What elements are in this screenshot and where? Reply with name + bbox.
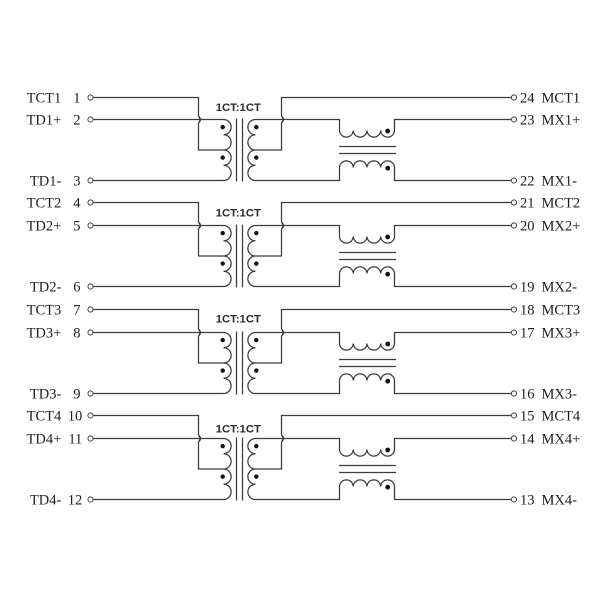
transformer T2 secondary polarity dot (bottom half) — [254, 261, 258, 265]
wire T4 secondary center tap to MCT4 pin 15 — [256, 416, 512, 470]
wire T2 secondary bottom through choke L2 lower winding to MX2- pin 19 — [256, 267, 512, 287]
svg-text:TCT2: TCT2 — [27, 195, 62, 211]
svg-text:TD3+: TD3+ — [27, 325, 62, 341]
wire TD3+ pin 8 to T3 primary top — [93, 332, 223, 334]
svg-text:18: 18 — [520, 302, 535, 318]
svg-text:3: 3 — [73, 173, 80, 189]
choke L3 lower winding polarity dot — [385, 379, 390, 384]
svg-text:TD3-: TD3- — [30, 386, 62, 402]
transformer T3 secondary winding (4 loops) — [248, 333, 256, 394]
pin 21 terminal circle — [511, 200, 516, 205]
svg-text:5: 5 — [73, 218, 80, 234]
svg-text:TCT3: TCT3 — [27, 302, 62, 318]
transformer T2 primary polarity dot (bottom half) — [221, 261, 225, 265]
svg-text:MX2+: MX2+ — [542, 218, 581, 234]
wire TD4- pin 12 to T4 primary bottom — [93, 499, 223, 501]
transformer T1 secondary winding (4 loops) — [248, 120, 256, 181]
svg-text:11: 11 — [68, 431, 82, 447]
wire hop: MCT1 vertical jumps over MX1+ wire — [282, 116, 284, 123]
choke L4 upper winding polarity dot — [385, 448, 390, 453]
pin 12 terminal circle — [88, 497, 93, 502]
svg-text:9: 9 — [73, 386, 80, 402]
transformer T1 primary polarity dot (bottom half) — [221, 155, 225, 159]
wire TCT1 pin 1 to T1 primary center tap — [93, 98, 223, 151]
svg-text:TD1-: TD1- — [30, 173, 62, 189]
choke L4 core — [339, 466, 396, 473]
pin 19 terminal circle — [511, 284, 516, 289]
pin 1 terminal circle — [88, 95, 93, 100]
svg-text:MX1-: MX1- — [542, 173, 578, 189]
svg-text:MCT3: MCT3 — [542, 302, 581, 318]
pin 20 terminal circle — [511, 223, 516, 228]
svg-text:TCT1: TCT1 — [27, 90, 62, 106]
svg-text:1CT:1CT: 1CT:1CT — [216, 423, 261, 435]
wire TD2+ pin 5 to T2 primary top — [93, 225, 223, 227]
wire T3 secondary top through choke L3 upper winding to MX3+ pin 17 — [256, 333, 512, 351]
transformer T3 primary winding (4 loops) — [224, 333, 232, 394]
wire T1 secondary top through choke L1 upper winding to MX1+ pin 23 — [256, 120, 512, 138]
wire hop: MCT4 vertical jumps over MX4+ wire — [282, 435, 284, 442]
pin 15 terminal circle — [511, 413, 516, 418]
svg-text:4: 4 — [73, 195, 81, 211]
transformer T4 secondary polarity dot (top half) — [254, 444, 258, 448]
pin 8 terminal circle — [88, 330, 93, 335]
svg-text:TD4-: TD4- — [30, 492, 62, 508]
pin 23 terminal circle — [511, 117, 516, 122]
wire T4 secondary bottom through choke L4 lower winding to MX4- pin 13 — [256, 480, 512, 500]
wire TCT2 pin 4 to T2 primary center tap — [93, 203, 223, 257]
svg-text:1CT:1CT: 1CT:1CT — [216, 207, 261, 219]
svg-text:12: 12 — [68, 492, 83, 508]
wire hop: TCT2 vertical jumps over TD2+ wire — [199, 222, 201, 229]
transformer T1 core — [237, 119, 243, 182]
svg-text:24: 24 — [520, 90, 535, 106]
transformer T2 primary winding (4 loops) — [224, 226, 232, 287]
pin 7 terminal circle — [88, 307, 93, 312]
svg-text:MCT2: MCT2 — [542, 195, 581, 211]
pin 14 terminal circle — [511, 436, 516, 441]
transformer T4 secondary winding (4 loops) — [248, 439, 256, 500]
wire TD3- pin 9 to T3 primary bottom — [93, 393, 223, 395]
wire TD1- pin 3 to T1 primary bottom — [93, 180, 223, 182]
svg-text:15: 15 — [520, 408, 535, 424]
wire hop: MCT2 vertical jumps over MX2+ wire — [282, 222, 284, 229]
svg-text:6: 6 — [73, 279, 80, 295]
svg-text:14: 14 — [520, 431, 535, 447]
choke L3 upper winding polarity dot — [385, 342, 390, 347]
transformer T3 core — [237, 332, 243, 395]
pin 3 terminal circle — [88, 178, 93, 183]
pin 13 terminal circle — [511, 497, 516, 502]
choke L2 core — [339, 253, 396, 260]
choke L3 core — [339, 360, 396, 367]
svg-text:TD1+: TD1+ — [27, 112, 62, 128]
svg-text:TCT4: TCT4 — [27, 408, 62, 424]
svg-text:TD4+: TD4+ — [27, 431, 62, 447]
svg-text:22: 22 — [520, 173, 535, 189]
svg-text:7: 7 — [73, 302, 80, 318]
pin 22 terminal circle — [511, 178, 516, 183]
svg-text:13: 13 — [520, 492, 535, 508]
pin 2 terminal circle — [88, 117, 93, 122]
transformer T4 core — [237, 438, 243, 501]
svg-text:17: 17 — [520, 325, 535, 341]
svg-text:23: 23 — [520, 112, 535, 128]
svg-text:10: 10 — [68, 408, 83, 424]
svg-text:MX1+: MX1+ — [542, 112, 581, 128]
transformer T3 secondary polarity dot (top half) — [254, 338, 258, 342]
svg-text:TD2+: TD2+ — [27, 218, 62, 234]
wire TD2- pin 6 to T2 primary bottom — [93, 286, 223, 288]
transformer T2 secondary polarity dot (top half) — [254, 231, 258, 235]
svg-text:8: 8 — [73, 325, 80, 341]
transformer T2 secondary winding (4 loops) — [248, 226, 256, 287]
transformer T2 primary polarity dot (top half) — [221, 231, 225, 235]
svg-text:21: 21 — [520, 195, 535, 211]
wire T3 secondary bottom through choke L3 lower winding to MX3- pin 16 — [256, 374, 512, 394]
choke L2 lower winding polarity dot — [385, 272, 390, 277]
transformer T1 secondary polarity dot (top half) — [254, 125, 258, 129]
pin 5 terminal circle — [88, 223, 93, 228]
svg-text:MX4+: MX4+ — [542, 431, 581, 447]
svg-text:TD2-: TD2- — [30, 279, 62, 295]
wire T4 secondary top through choke L4 upper winding to MX4+ pin 14 — [256, 439, 512, 457]
pin 4 terminal circle — [88, 200, 93, 205]
wire hop: TCT3 vertical jumps over TD3+ wire — [199, 329, 201, 336]
svg-text:MCT4: MCT4 — [542, 408, 581, 424]
wire TD1+ pin 2 to T1 primary top — [93, 119, 223, 121]
choke L1 core — [339, 147, 396, 154]
pin 11 terminal circle — [88, 436, 93, 441]
svg-text:19: 19 — [520, 279, 535, 295]
transformer T4 primary polarity dot (top half) — [221, 444, 225, 448]
transformer T1 secondary polarity dot (bottom half) — [254, 155, 258, 159]
wire hop: MCT3 vertical jumps over MX3+ wire — [282, 329, 284, 336]
transformer T4 secondary polarity dot (bottom half) — [254, 474, 258, 478]
svg-text:MX3+: MX3+ — [542, 325, 581, 341]
transformer T4 primary winding (4 loops) — [224, 439, 232, 500]
svg-text:1CT:1CT: 1CT:1CT — [216, 102, 261, 114]
svg-text:2: 2 — [73, 112, 80, 128]
pin 6 terminal circle — [88, 284, 93, 289]
wire hop: TCT4 vertical jumps over TD4+ wire — [199, 435, 201, 442]
svg-text:16: 16 — [520, 386, 535, 402]
wire hop: TCT1 vertical jumps over TD1+ wire — [199, 116, 201, 123]
wire T3 secondary center tap to MCT3 pin 18 — [256, 310, 512, 364]
wire T2 secondary top through choke L2 upper winding to MX2+ pin 20 — [256, 226, 512, 244]
choke L1 upper winding polarity dot — [385, 129, 390, 134]
svg-text:1: 1 — [73, 90, 80, 106]
wire TD4+ pin 11 to T4 primary top — [93, 438, 223, 440]
pin 24 terminal circle — [511, 95, 516, 100]
svg-text:MCT1: MCT1 — [542, 90, 581, 106]
svg-text:1CT:1CT: 1CT:1CT — [216, 314, 261, 326]
svg-text:MX2-: MX2- — [542, 279, 578, 295]
svg-text:MX4-: MX4- — [542, 492, 578, 508]
pin 17 terminal circle — [511, 330, 516, 335]
choke L2 upper winding polarity dot — [385, 235, 390, 240]
choke L1 lower winding polarity dot — [385, 166, 390, 171]
transformer T2 core — [237, 225, 243, 288]
transformer T1 primary winding (4 loops) — [224, 120, 232, 181]
pin 9 terminal circle — [88, 391, 93, 396]
wire T2 secondary center tap to MCT2 pin 21 — [256, 203, 512, 257]
svg-text:MX3-: MX3- — [542, 386, 578, 402]
wire T1 secondary center tap to MCT1 pin 24 — [256, 98, 512, 151]
svg-text:20: 20 — [520, 218, 535, 234]
transformer T1 primary polarity dot (top half) — [221, 125, 225, 129]
pin 16 terminal circle — [511, 391, 516, 396]
choke L4 lower winding polarity dot — [385, 485, 390, 490]
pin 10 terminal circle — [88, 413, 93, 418]
transformer T3 primary polarity dot (bottom half) — [221, 368, 225, 372]
wire TCT3 pin 7 to T3 primary center tap — [93, 310, 223, 364]
pin 18 terminal circle — [511, 307, 516, 312]
transformer T3 secondary polarity dot (bottom half) — [254, 368, 258, 372]
wire T1 secondary bottom through choke L1 lower winding to MX1- pin 22 — [256, 161, 512, 181]
wire TCT4 pin 10 to T4 primary center tap — [93, 416, 223, 470]
transformer T3 primary polarity dot (top half) — [221, 338, 225, 342]
transformer T4 primary polarity dot (bottom half) — [221, 474, 225, 478]
